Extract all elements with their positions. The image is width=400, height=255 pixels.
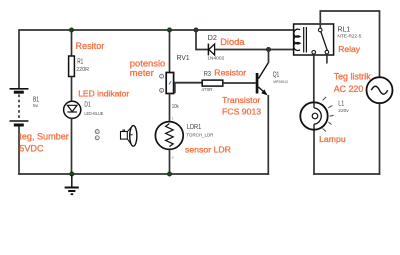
contact NC xyxy=(325,50,329,54)
potentiometer RV1 xyxy=(166,73,173,94)
node junction top R1 xyxy=(69,28,73,32)
svg-text:Resitor: Resitor xyxy=(76,41,105,51)
wire AC bottom xyxy=(379,103,381,175)
svg-text:Teg listrik: Teg listrik xyxy=(334,71,372,81)
svg-text:1: 1 xyxy=(160,75,162,79)
wire RV1 to LDR xyxy=(169,94,171,122)
svg-text:220R: 220R xyxy=(76,67,89,73)
wire LDR to bottom rail xyxy=(169,149,171,174)
svg-text:1: 1 xyxy=(172,117,174,121)
svg-text:LED-BLUE: LED-BLUE xyxy=(84,111,103,116)
svg-text:LED indikator: LED indikator xyxy=(78,89,129,99)
resistor R3 xyxy=(202,80,223,86)
lamp rays xyxy=(323,97,334,131)
svg-text:sensor LDR: sensor LDR xyxy=(185,145,231,155)
LED D1 xyxy=(64,101,81,118)
diode D2 xyxy=(208,44,214,56)
wire D1 to bottom rail xyxy=(71,118,73,174)
svg-text:meter: meter xyxy=(130,67,154,78)
svg-text:R3: R3 xyxy=(204,69,211,78)
svg-text:2: 2 xyxy=(96,130,98,134)
LDR1 xyxy=(155,122,183,150)
transistor Q1 xyxy=(256,63,269,96)
svg-text:NTE-R22-5: NTE-R22-5 xyxy=(337,34,361,39)
svg-text:1: 1 xyxy=(96,136,98,140)
svg-text:L1: L1 xyxy=(338,100,344,107)
wire RV1 column top xyxy=(169,30,171,73)
svg-text:470R: 470R xyxy=(202,87,214,92)
core xyxy=(304,27,307,53)
svg-text:Transistor: Transistor xyxy=(222,95,260,105)
coil xyxy=(294,29,300,50)
svg-text:TORCH_LDR: TORCH_LDR xyxy=(186,132,214,137)
lamp L1 xyxy=(300,102,327,129)
wire right rail to AC xyxy=(379,11,381,77)
wire collector up xyxy=(268,50,270,63)
wire left rail lower xyxy=(18,127,20,175)
svg-text:MPS9013: MPS9013 xyxy=(273,80,288,84)
svg-text:5VDC: 5VDC xyxy=(19,143,44,153)
svg-text:10k: 10k xyxy=(172,104,179,110)
wire NC stub xyxy=(326,54,328,64)
svg-text:Dioda: Dioda xyxy=(220,37,245,47)
node junction RV1 top xyxy=(167,28,171,32)
pin 1 circle RV1 xyxy=(160,74,164,78)
wire R1 column top xyxy=(71,30,73,56)
node junction collector xyxy=(266,47,270,51)
wire diode to relay coil xyxy=(215,49,294,51)
svg-text:1N4002: 1N4002 xyxy=(207,55,224,61)
wire R3 to base xyxy=(223,82,256,84)
resistor R1 xyxy=(69,56,75,77)
svg-text:D2: D2 xyxy=(208,33,217,42)
wire emitter down xyxy=(267,95,269,175)
svg-text:FCS 9013: FCS 9013 xyxy=(222,106,261,116)
speaker icon xyxy=(121,126,137,147)
AC source xyxy=(367,77,393,103)
svg-text:teg, Sumber: teg, Sumber xyxy=(19,131,69,141)
wire relay NO to lamp xyxy=(313,54,315,102)
pin 3 circle RV1 xyxy=(160,88,164,92)
node junction LDR bottom xyxy=(167,172,171,176)
svg-text:R1: R1 xyxy=(77,56,83,65)
wire top rail +5V xyxy=(19,29,294,31)
svg-text:D1: D1 xyxy=(84,102,90,109)
node junction bottom ground xyxy=(70,172,74,176)
svg-text:220v: 220v xyxy=(338,108,349,114)
svg-text:Resistor: Resistor xyxy=(214,68,246,78)
svg-text:LDR1: LDR1 xyxy=(187,122,202,131)
svg-text:RV1: RV1 xyxy=(177,53,190,62)
pivot contact xyxy=(318,28,322,32)
svg-text:5v: 5v xyxy=(33,103,39,109)
wire R1 to D1 xyxy=(71,77,73,102)
svg-text:Lampu: Lampu xyxy=(319,134,346,144)
svg-text:Relay: Relay xyxy=(338,44,360,54)
svg-text:2: 2 xyxy=(172,156,174,160)
wire D2 branch drop xyxy=(196,30,208,50)
wire bottom rail xyxy=(18,173,269,175)
pin 2 circle near LED xyxy=(95,130,99,134)
svg-text:AC 220: AC 220 xyxy=(334,84,364,94)
wire left rail upper xyxy=(18,29,20,88)
switch blade xyxy=(321,32,327,51)
svg-text:Q1: Q1 xyxy=(273,71,280,78)
wire bottom right rail xyxy=(313,173,380,175)
battery B1 xyxy=(10,89,29,125)
wire RV1 wiper to R3 xyxy=(175,83,202,94)
svg-text:RL1: RL1 xyxy=(338,24,351,33)
node junction D2 branch top xyxy=(194,28,198,32)
contact NO xyxy=(312,51,316,55)
pin 1 circle near LED xyxy=(95,136,99,140)
wire relay common up xyxy=(319,11,321,28)
wire lamp column bottom xyxy=(313,130,315,175)
relay RL1 xyxy=(294,24,334,55)
ground xyxy=(65,175,79,194)
svg-text:B1: B1 xyxy=(33,96,39,103)
wire top right rail xyxy=(320,10,381,12)
svg-text:3: 3 xyxy=(160,89,162,93)
